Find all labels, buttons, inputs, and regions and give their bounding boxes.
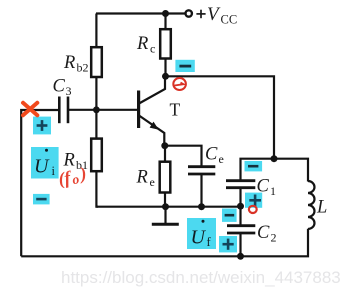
svg-text:C: C [257,223,270,243]
svg-text:U: U [191,227,207,249]
svg-text:e: e [219,152,224,166]
svg-text:R: R [63,53,75,73]
annotation red circle arrow at collector [173,78,186,90]
inductor L [308,181,315,229]
svg-text:3: 3 [66,84,72,98]
node Ui label [31,147,59,179]
highlight plus below C2 [219,236,237,252]
svg-text:e: e [150,175,155,189]
terminal +Vcc circle [186,10,192,16]
annotation red f0 note [56,163,88,190]
svg-text:T: T [170,100,181,120]
annotation red circle at C1 plus [249,206,257,213]
highlight minus left of C2 [222,209,237,222]
svg-text:CC: CC [221,13,238,27]
wire tank top to C1 [241,159,275,180]
label C1 [257,177,277,199]
label C3 [53,77,72,99]
capacitor C3 [59,97,68,124]
wire emitter to Ce [165,146,202,167]
transistor T emitter lead with arrow [139,116,164,146]
svg-text:https://blog.csdn.net/weixin_4: https://blog.csdn.net/weixin_44378835 [61,268,340,287]
wire C3 to base [68,109,138,111]
node Ce bottom junction [198,203,205,210]
resistor Rb2 [91,47,102,77]
svg-text:V: V [207,4,221,25]
label Rc [136,34,155,56]
wire C1 to midpoint [239,188,241,207]
wire L bottom to bottom rail [21,229,308,257]
svg-text:i: i [52,164,56,178]
wire left column [21,110,58,256]
node C2 bottom junction [237,253,244,260]
resistor Rc [160,29,171,58]
highlight minus above C1 [245,161,263,171]
label Rb1 [63,151,89,173]
svg-text:R: R [136,168,148,188]
wire collector to right column [166,76,275,158]
svg-text:L: L [316,198,327,218]
label Ce [205,145,224,167]
highlight plus below C1 [245,193,262,208]
node Vcc junction [162,10,169,17]
node collector junction [162,73,169,80]
wire Rc bottom to collector node [164,59,166,78]
transistor T base bar [137,91,140,129]
svg-text:c: c [150,42,155,56]
wire midpoint to C2 [239,206,241,225]
wire Rb2 top stub [95,14,97,49]
svg-text:b2: b2 [77,61,89,75]
highlight plus at input top [33,117,51,135]
highlight minus at input bottom [33,194,50,205]
node emitter junction [161,142,168,149]
node ground junction [162,203,169,210]
wire Rb2 bottom to base node [95,77,97,139]
capacitor C2 [227,226,255,233]
capacitor C1 [226,181,255,188]
label Re [136,168,155,190]
node Uf label [187,218,216,249]
label +Vcc [196,4,237,27]
svg-text:2: 2 [271,231,277,245]
capacitor Ce [188,167,215,174]
svg-text:1: 1 [270,184,276,198]
label C2 [257,223,277,245]
resistor Re [160,162,171,193]
wire Ce bottom [200,174,202,207]
resistor Rb1 [91,139,102,172]
wire tank top to L [274,159,308,182]
node C1 C2 midpoint [237,203,244,210]
wire Re bottom [164,193,166,207]
wire bias rail [96,206,240,208]
wire Rc top stub [164,14,166,31]
node base junction [93,106,100,113]
ground [152,207,179,225]
label Rb2 [63,53,89,75]
wire Rb1 bottom to bias rail [96,171,98,207]
svg-text:U: U [34,156,50,178]
wire C2 bottom [239,233,241,256]
transistor T collector lead [139,76,165,103]
highlight minus at collector [175,60,194,72]
wire top rail [96,12,185,14]
node tank top junction [271,155,278,162]
wire emitter to Re [164,146,166,162]
annotation red X on input [23,103,37,116]
svg-text:C: C [205,145,218,165]
svg-text:R: R [136,34,148,54]
svg-text:C: C [53,77,66,97]
svg-text:o: o [71,171,80,187]
